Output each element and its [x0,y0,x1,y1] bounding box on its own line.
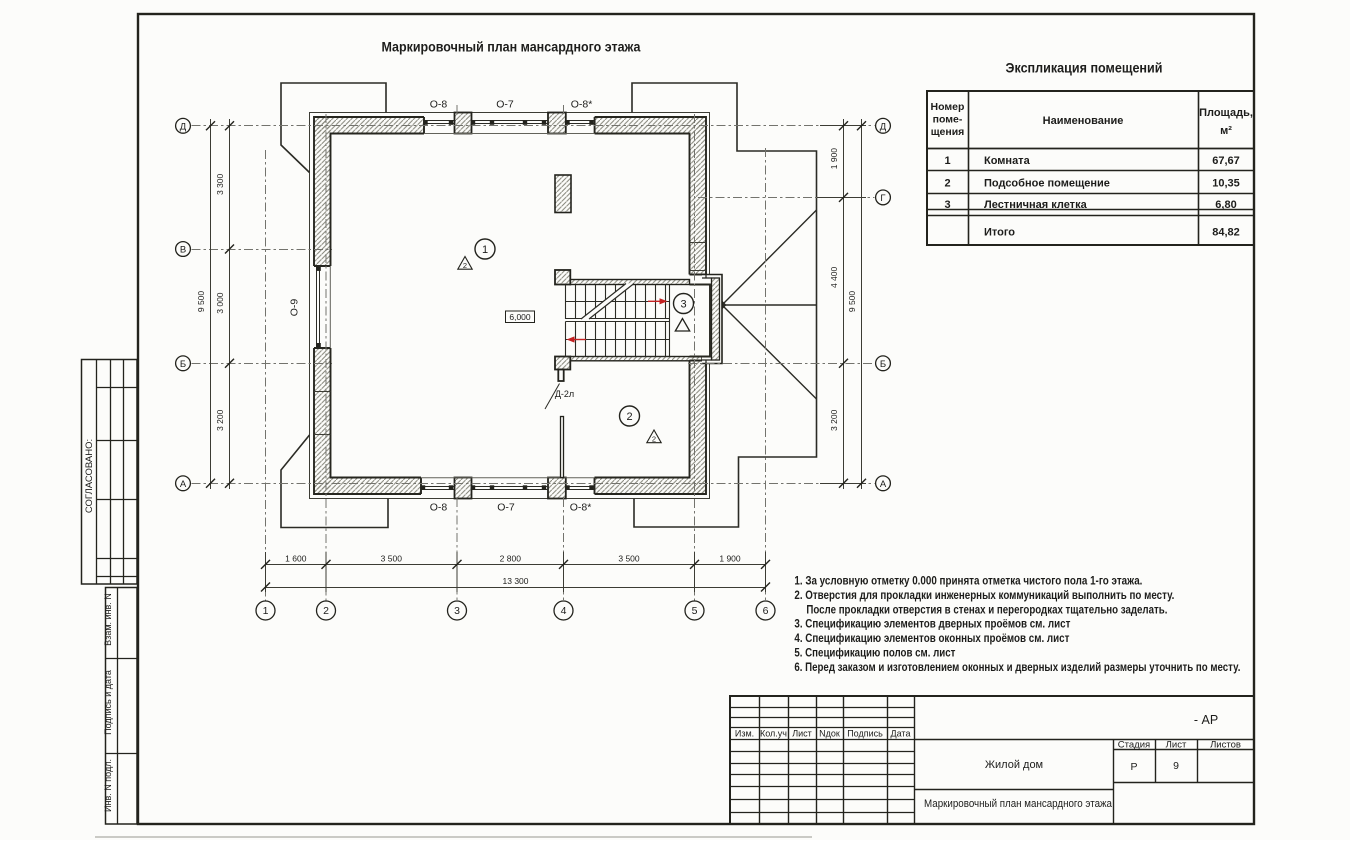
svg-text:Подпись и дата: Подпись и дата [103,670,113,735]
porch gable roof lines [722,210,817,399]
wall top-right segment [595,117,706,134]
svg-text:5: 5 [692,605,698,617]
window O-8 bottom glazing lines [421,487,455,490]
svg-text:3 000: 3 000 [215,292,225,314]
svg-text:Подпись: Подпись [847,729,883,739]
stair bay outer wall [702,275,722,364]
svg-text:1 900: 1 900 [719,554,741,564]
axis circle 5 bottom [685,601,704,620]
svg-text:1: 1 [944,155,950,167]
svg-text:6: 6 [763,605,769,617]
axis circle 4 bottom [554,601,573,620]
axis circle 6 bottom [756,601,775,620]
axis circle 3 bottom [448,601,467,620]
window O-7 top glazing lines [472,121,549,124]
axis circle Г right [876,190,891,205]
svg-text:О-8*: О-8* [570,502,592,514]
svg-text:Б: Б [880,359,886,370]
stair direction arrow lower (red) [572,339,586,341]
svg-text:Номер: Номер [931,101,965,113]
room mark 1 [475,239,495,259]
svg-text:3: 3 [454,605,460,617]
svg-text:После прокладки отверстия в ст: После прокладки отверстия в стенах и пер… [806,602,1167,616]
svg-text:В: В [180,245,186,256]
warning triangle room1 [458,257,472,270]
svg-text:Итого: Итого [984,227,1015,239]
svg-text:щения: щения [931,126,965,138]
wall right upper segment [690,117,707,275]
axis circle В left [176,242,191,257]
svg-text:Стадия: Стадия [1118,740,1150,751]
svg-text:Р: Р [1130,761,1137,773]
svg-text:О-8: О-8 [430,502,448,514]
svg-text:Лестничная клетка: Лестничная клетка [984,199,1088,211]
table row lines [927,148,1254,150]
title block vertical lines left part [760,696,915,824]
left strip block B [106,588,138,825]
svg-text:67,67: 67,67 [1212,155,1240,167]
door leader line [545,384,560,410]
window O-8* top glazing lines [566,121,595,124]
svg-text:3 200: 3 200 [829,409,839,431]
svg-text:Инв. N подл.: Инв. N подл. [103,759,113,812]
title block outer frame [730,696,1254,824]
svg-text:3: 3 [944,199,950,211]
sheet frame [138,14,1254,824]
stair break diagonal lines [581,284,634,320]
svg-text:Комната: Комната [984,155,1031,167]
wall bottom-right segment [595,478,707,495]
axis line 6 vertical [765,148,767,601]
svg-text:О-8: О-8 [430,99,448,111]
svg-text:10,35: 10,35 [1212,178,1240,190]
wall right lower segment [690,361,707,495]
svg-text:1 600: 1 600 [285,554,307,564]
svg-text:Д-2л: Д-2л [555,389,574,399]
svg-text:Кол.уч: Кол.уч [760,729,787,739]
svg-text:Маркировочный план мансардного: Маркировочный план мансардного этажа [382,40,641,55]
svg-text:3 200: 3 200 [215,409,225,431]
wall left upper segment [314,117,331,266]
svg-text:Д: Д [180,122,187,133]
svg-text:6,000: 6,000 [509,312,531,322]
chimney bottom-left [281,435,388,528]
wall outer face lines [314,117,706,494]
svg-text:Жилой дом: Жилой дом [985,759,1043,771]
svg-text:84,82: 84,82 [1212,227,1240,239]
svg-text:5. Спецификацию полов см. лист: 5. Спецификацию полов см. лист [794,645,955,659]
roof eaves outline [310,113,710,499]
gable apex diamond [718,301,727,310]
interior chimney flue [555,175,571,213]
svg-text:А: А [880,479,887,490]
axis circle 1 bottom [256,601,275,620]
svg-text:поме-: поме- [933,114,963,126]
svg-text:9 500: 9 500 [196,291,206,313]
axis line Б horizontal left [192,363,333,365]
svg-text:Д: Д [880,122,887,133]
svg-text:1 900: 1 900 [829,148,839,170]
right dimension lines [843,119,845,489]
window O-8* bottom glazing lines [566,487,595,490]
svg-text:- АР: - АР [1194,713,1218,727]
bottom scan shadow line [95,836,812,838]
triangle room3 [675,319,689,332]
right extension lines [820,125,866,127]
axis line Д horizontal [192,125,875,127]
svg-text:Изм.: Изм. [735,729,754,739]
svg-text:2: 2 [323,605,329,617]
warning triangle room2 [647,430,661,443]
table column lines [969,91,1199,245]
svg-text:2: 2 [652,435,656,444]
svg-text:Б: Б [180,359,186,370]
svg-text:2. Отверстия для прокладки инж: 2. Отверстия для прокладки инженерных ко… [794,588,1174,602]
landing boundary room 3 [690,285,711,357]
axis circle Б left [176,356,191,371]
axis circle Б right [876,356,891,371]
stair direction arrow upper (red) [648,300,661,302]
svg-text:1: 1 [263,605,269,617]
chimney top-left [281,83,386,173]
room mark 2 [620,406,640,426]
axis line Г horizontal [698,197,875,199]
stair pillar top-left [555,270,570,285]
explication table frame [927,91,1254,245]
bottom dimension lines [266,564,766,566]
svg-text:Маркировочный план мансардного: Маркировочный план мансардного этажа [924,798,1113,810]
svg-text:О-8*: О-8* [571,99,593,111]
partition wall room2 [561,417,564,478]
svg-text:4 400: 4 400 [829,266,839,288]
svg-text:Наименование: Наименование [1043,115,1124,127]
svg-text:3 500: 3 500 [618,554,640,564]
axis circle А left [176,476,191,491]
svg-text:Экспликация помещений: Экспликация помещений [1006,61,1163,76]
wall left lower segment [314,348,331,494]
wall top-left segment [314,117,424,134]
svg-text:13 300: 13 300 [503,576,529,586]
svg-text:3 300: 3 300 [215,173,225,195]
window pier top between O-7 and O-8* [548,113,566,134]
axis line В horizontal [192,249,333,251]
masonry joints right wall [690,243,707,271]
svg-text:2: 2 [944,178,950,190]
svg-text:О-9: О-9 [289,299,301,317]
stair enclosure bottom wall [570,357,702,361]
svg-text:Лист: Лист [792,729,812,739]
wall opening end caps [314,117,706,494]
svg-text:Лист: Лист [1166,740,1187,751]
window pier top between O-8 and O-7 [455,113,472,134]
svg-text:1. За условную отметку 0.000 п: 1. За условную отметку 0.000 принята отм… [794,574,1142,588]
window O-9 left glazing lines [317,266,320,348]
svg-text:Nдок: Nдок [819,729,840,739]
bottom extension lines [265,552,267,592]
wall inner face lines [331,134,690,478]
stair upper flight [566,285,670,357]
axis line 5 vertical [694,114,696,601]
wall bottom-left segment [314,478,421,495]
axis circle Д right [876,118,891,133]
svg-text:6. Перед заказом и изготовлени: 6. Перед заказом и изготовлением оконных… [794,660,1240,674]
axis line А horizontal [192,483,875,485]
svg-text:9 500: 9 500 [847,291,857,313]
axis line 3 vertical [456,105,458,117]
axis circle Д left [176,118,191,133]
axis line 2 vertical [325,114,327,601]
svg-text:2: 2 [626,411,632,423]
stair pillar bottom-left [555,357,570,370]
svg-text:9: 9 [1173,760,1179,772]
title block right section lines [914,739,1254,741]
title block horizontal lines left part [730,708,914,813]
svg-text:6,80: 6,80 [1215,199,1236,211]
svg-text:Подсобное помещение: Подсобное помещение [984,178,1110,190]
svg-text:О-7: О-7 [496,99,514,111]
level mark 6,000 [506,311,535,323]
window O-8 top glazing lines [424,121,455,124]
svg-text:2: 2 [463,261,467,270]
left strip block A (СОГЛАСОВАНО) [82,360,138,585]
svg-text:4: 4 [561,605,567,617]
window pier bottom between O-7 and O-8* [548,478,566,499]
window pier bottom between O-8 and O-7 [455,478,472,499]
masonry joints left wall [314,392,331,435]
svg-text:Взам. инв. N: Взам. инв. N [103,593,113,646]
svg-text:4. Спецификацию элементов окон: 4. Спецификацию элементов оконных проёмо… [794,631,1069,645]
axis line 4 vertical [563,105,565,117]
axis circle 2 bottom [317,601,336,620]
axis circle А right [876,476,891,491]
svg-text:А: А [180,479,187,490]
left dimension line total 9500 [210,119,212,489]
svg-text:м²: м² [1220,125,1232,137]
axis line 1 vertical [265,150,267,601]
svg-text:О-7: О-7 [497,502,515,514]
door leaf Д-2л [558,370,563,382]
svg-text:Листов: Листов [1210,740,1241,751]
axis line Б horizontal right [688,363,875,365]
chimney top-right and right roof edge and chimney bottom-right [632,83,817,527]
svg-text:2 800: 2 800 [500,554,522,564]
svg-text:3: 3 [680,298,686,310]
svg-text:3. Спецификацию элементов двер: 3. Спецификацию элементов дверных проёмо… [794,617,1070,631]
svg-text:Дата: Дата [891,729,911,739]
svg-text:СОГЛАСОВАНО:: СОГЛАСОВАНО: [84,439,95,513]
window O-7 bottom glazing lines [472,487,549,490]
svg-text:1: 1 [482,244,488,256]
svg-text:3 500: 3 500 [381,554,403,564]
room mark 3 [674,294,694,314]
left dimension line segments [229,119,231,489]
svg-text:Г: Г [880,193,885,204]
inner wall face lines across window openings [330,134,594,478]
svg-text:Площадь,: Площадь, [1199,107,1253,119]
stair enclosure top wall [570,280,689,285]
